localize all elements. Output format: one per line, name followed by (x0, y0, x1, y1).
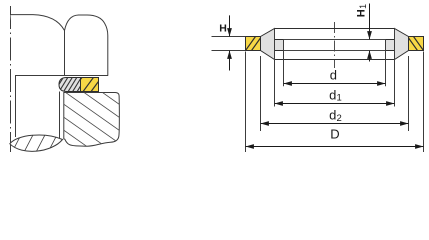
dimension H1 arrows (369, 4, 371, 40)
label H1 (rotated) (356, 4, 368, 17)
bolt shank edge (59, 92, 61, 140)
dimension d2 line (261, 123, 409, 125)
housing hatching (55, 59, 135, 193)
washer metal hatching (54, 76, 87, 92)
washer rubber ring (section) (81, 78, 99, 92)
dimension H extension lines (212, 36, 246, 38)
dimension D line (246, 146, 424, 148)
dimension d line (284, 83, 386, 85)
svg-text:H: H (356, 9, 368, 17)
d2 extension line right (408, 56, 410, 131)
svg-text:2: 2 (337, 113, 342, 124)
bolt head hex corner line (64, 31, 66, 76)
svg-text:1: 1 (337, 93, 342, 104)
sleeve top silhouette line (275, 28, 395, 30)
bore wall / d extension line right (385, 39, 387, 86)
svg-text:D: D (330, 127, 339, 142)
D extension line right (423, 52, 425, 153)
d1 extension line left (274, 29, 276, 107)
washer metal ring (section) (59, 78, 81, 92)
dimension d1 line (275, 103, 395, 105)
bolt head outline (11, 15, 108, 76)
metal cone section right (386, 29, 409, 60)
disc top line (284, 39, 386, 41)
D extension line left (245, 52, 247, 153)
svg-text:d: d (329, 108, 336, 123)
svg-text:d: d (329, 88, 336, 103)
svg-text:H: H (219, 22, 227, 34)
rubber ring section left (246, 37, 261, 51)
svg-text:d: d (330, 68, 337, 83)
bolt shank break (lens section) (10, 135, 63, 151)
bore wall / d extension line left (283, 39, 285, 86)
sleeve bottom silhouette line (275, 59, 395, 61)
metal cone section left (261, 29, 284, 60)
svg-text:1: 1 (358, 4, 368, 9)
dimension H arrows (229, 15, 231, 36)
lens hatching (11, 132, 71, 155)
bolt centerline (10, 6, 12, 152)
bolt shank inner line (15, 75, 17, 137)
rubber ring section right (407, 35, 425, 52)
seal centerline (334, 22, 336, 68)
housing block (section) (64, 93, 120, 147)
washer rubber hatching (71, 76, 103, 93)
d2 extension line left (260, 56, 262, 131)
disc bottom line (284, 50, 386, 52)
d1 extension line right (394, 29, 396, 107)
